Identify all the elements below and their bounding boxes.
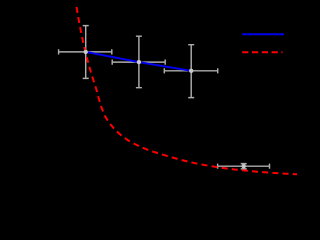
errorbar point1 x-bar: [59, 51, 112, 53]
errorbar point3 x-bar: [164, 70, 217, 72]
errorbar point2 x-bar: [112, 61, 165, 63]
errorbar point4 y-bar: [243, 164, 245, 169]
errorbar point2 x-caps: [112, 60, 165, 65]
errorbar point3 y-caps: [188, 45, 194, 98]
errorbar point3 y-bar: [190, 45, 192, 98]
marker point4: [242, 164, 246, 168]
red dashed model curve: [77, 7, 298, 174]
errorbar point4 x-bar: [218, 165, 270, 167]
marker point1: [84, 50, 88, 54]
legend red dashed line sample: [242, 51, 282, 53]
errorbar point1 x-caps: [59, 49, 112, 54]
errorbar point4 y-caps: [241, 164, 247, 169]
errorbar point2 y-caps: [136, 36, 142, 87]
errorbar point2 y-bar: [138, 36, 140, 87]
marker point2: [137, 60, 141, 64]
marker point3: [189, 69, 193, 73]
legend blue line sample: [242, 33, 284, 35]
blue fit line through points 1-3: [86, 52, 192, 71]
errorbar point1 y-caps: [83, 26, 89, 79]
errorbar point3 x-caps: [164, 68, 217, 73]
errorbar point4 x-caps: [218, 164, 270, 169]
errorbar point1 y-bar: [85, 26, 87, 79]
